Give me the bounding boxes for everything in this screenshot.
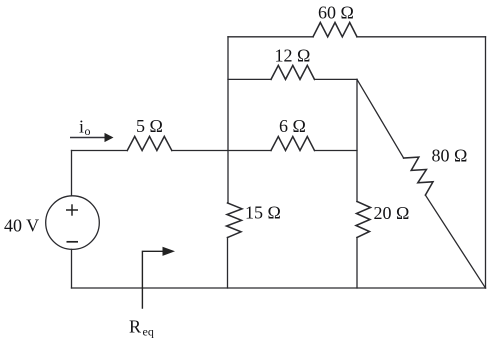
resistor R 15ohm xyxy=(227,203,243,238)
voltage source V1 40V xyxy=(46,196,100,250)
svg-text:o: o xyxy=(85,124,91,138)
resistor R 60ohm xyxy=(313,23,357,37)
resistor R 6ohm xyxy=(271,137,315,151)
wire top left segment xyxy=(228,36,313,38)
svg-text:12 Ω: 12 Ω xyxy=(275,46,311,66)
wire 12ohm row right segment xyxy=(315,78,358,80)
Req arrow xyxy=(142,247,175,309)
svg-text:20 Ω: 20 Ω xyxy=(374,203,410,223)
current arrow io xyxy=(70,133,114,142)
svg-text:15 Ω: 15 Ω xyxy=(245,202,281,222)
minus sign of source xyxy=(67,241,79,243)
svg-text:R: R xyxy=(129,317,141,337)
svg-text:5 Ω: 5 Ω xyxy=(136,116,163,136)
wire diagonal upper segment xyxy=(357,79,404,158)
resistor R 20ohm xyxy=(356,202,371,238)
svg-text:6 Ω: 6 Ω xyxy=(279,116,306,136)
wire vertical node B lower xyxy=(356,238,358,289)
wire main horizontal left segment xyxy=(72,150,128,152)
plus sign of source xyxy=(66,204,78,215)
wire vertical node A lower xyxy=(227,238,229,289)
svg-text:40 V: 40 V xyxy=(4,215,39,235)
wire diagonal lower segment xyxy=(425,195,485,288)
wire left vertical bottom (source to bottom wire) xyxy=(71,249,73,288)
wire vertical node B upper xyxy=(356,79,358,201)
wire main horizontal right segment xyxy=(315,150,358,152)
resistor R 12ohm xyxy=(271,65,315,79)
wire vertical node A upper xyxy=(227,37,229,203)
svg-text:i: i xyxy=(79,117,84,137)
wire main horizontal middle segment xyxy=(172,150,271,152)
wire top right segment xyxy=(357,36,486,38)
resistor R 5ohm xyxy=(127,136,172,150)
svg-text:60 Ω: 60 Ω xyxy=(318,2,354,22)
svg-text:80 Ω: 80 Ω xyxy=(432,145,468,165)
svg-text:eq: eq xyxy=(143,325,154,339)
wire 12ohm row left segment xyxy=(228,78,271,80)
wire left vertical top (source to main wire) xyxy=(71,151,73,196)
wire right vertical xyxy=(485,37,487,288)
resistor R 80ohm xyxy=(404,157,433,195)
wire bottom horizontal xyxy=(72,287,486,289)
